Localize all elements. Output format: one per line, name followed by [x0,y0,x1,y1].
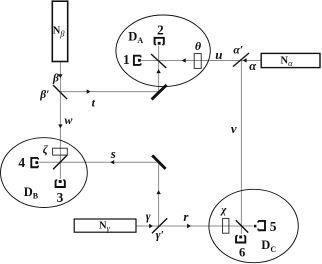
svg-text:u: u [215,47,222,62]
svg-text:1: 1 [123,52,130,67]
svg-text:β: β [52,72,59,84]
svg-text:w: w [64,113,73,127]
svg-text:6: 6 [239,245,245,259]
arrow gamma right [149,224,153,228]
detector 1 [134,56,141,65]
beam splitter beta-prime [53,85,67,99]
phase shifter theta [194,54,201,69]
svg-text:s: s [110,146,116,161]
arrow up from gamma-prime to mirror 2 [156,190,160,194]
svg-text:γ: γ [146,211,151,223]
beam splitter gamma-prime [152,218,167,233]
svg-text:3: 3 [57,190,64,205]
source N-alpha box [261,53,320,67]
beam s horizontal line [39,161,159,163]
beam u horizontal line [141,60,261,62]
arrow alpha left [243,58,247,62]
detector 6 [236,236,245,243]
arrow u left [182,58,186,62]
svg-text:4: 4 [18,155,25,170]
arrow w down [58,124,62,128]
arrow r right [187,224,191,228]
beam beta/w vertical line [59,62,61,179]
ellipse DC [209,189,298,262]
ellipse DA [116,15,210,87]
mirror M1 [152,85,167,100]
source N-beta box [52,1,67,61]
detector 4 [31,158,38,167]
detector 5 [258,221,265,230]
beam splitter in DB [53,155,67,169]
beam splitter in DC [236,220,248,232]
arrow up into DA [156,69,160,73]
svg-text:α: α [249,59,257,73]
beam splitter alpha-prime [233,53,249,67]
beam v vertical line [240,61,242,235]
detector 2 [155,38,164,45]
svg-text:β′: β′ [39,89,49,101]
beam splitter in DA [151,54,166,68]
phase shifter chi [223,218,229,233]
svg-text:2: 2 [157,23,164,38]
svg-text:χ: χ [219,204,227,216]
beam from gamma splitter up to mirror 2 [158,162,160,226]
svg-text:5: 5 [270,219,277,234]
svg-text:γ′: γ′ [156,230,164,242]
beam t horizontal line [60,91,158,93]
svg-text:θ: θ [195,39,202,53]
svg-text:α′: α′ [233,45,243,57]
detector 5 dot [254,225,257,228]
beam from mirror up into DA [158,46,160,92]
arrow s left [110,160,114,164]
source N-gamma box [74,219,136,232]
arrow beta down [58,74,62,78]
mirror M2 [152,155,165,169]
beam r horizontal line [136,225,253,227]
phase shifter zeta [53,148,68,155]
svg-text:v: v [231,122,237,136]
arrow t right [87,89,91,93]
detector 3 [56,180,65,187]
ellipse DB [1,138,88,208]
